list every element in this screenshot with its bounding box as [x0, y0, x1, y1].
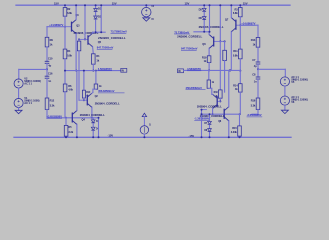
svg-text:4.5849355V: 4.5849355V	[187, 67, 201, 71]
junction	[201, 109, 203, 111]
junction	[65, 136, 67, 138]
svg-text:1n: 1n	[254, 80, 257, 84]
svg-text:AC 1 1: AC 1 1	[24, 101, 32, 105]
svg-text:R14: R14	[233, 83, 238, 87]
svg-text:6.8k: 6.8k	[233, 11, 238, 15]
wire Q2 base stub	[84, 99, 87, 101]
wire rail to Q6 base node	[219, 5, 221, 41]
junction	[209, 113, 211, 115]
resistor R16	[256, 98, 260, 109]
wire D6 to Q6 collector node	[203, 20, 205, 31]
node input right	[257, 68, 259, 70]
wire to R8	[78, 39, 80, 41]
junction	[203, 31, 205, 33]
svg-text:R15: R15	[232, 126, 237, 130]
resistor R20	[207, 80, 211, 88]
junction	[228, 136, 230, 138]
wire rail to Q6 collector node (cascode)	[209, 5, 211, 32]
wire	[16, 4, 290, 6]
wire	[95, 12, 97, 16]
junction	[78, 38, 80, 40]
junction	[98, 117, 100, 119]
voltage source V1	[14, 98, 23, 107]
svg-text:847.75565mV: 847.75565mV	[181, 47, 198, 51]
wire emitter bus right	[186, 69, 240, 71]
svg-text:15V: 15V	[54, 2, 59, 6]
node input left	[46, 68, 48, 70]
svg-text:2N3906_CORDELL: 2N3906_CORDELL	[98, 36, 126, 40]
current source I1	[142, 113, 146, 116]
svg-text:2N3906_CORDELL: 2N3906_CORDELL	[177, 34, 202, 38]
wire	[209, 114, 211, 121]
wire D4 to rail	[92, 131, 94, 137]
voltage source V5	[280, 77, 289, 86]
node Q3 base	[64, 26, 66, 28]
svg-text:R12: R12	[50, 98, 55, 102]
junction	[230, 4, 232, 6]
svg-text:15V: 15V	[185, 2, 190, 6]
wire	[143, 134, 145, 137]
svg-text:0.8k: 0.8k	[233, 54, 238, 58]
wire Q4 collector to Q3 emitter node	[76, 71, 78, 111]
wire rail to R2	[64, 5, 66, 7]
svg-text:R11: R11	[233, 49, 238, 53]
svg-text:456.83582mV: 456.83582mV	[186, 86, 203, 90]
svg-text:15V: 15V	[112, 2, 117, 6]
ground below V7	[143, 18, 150, 21]
transistor Q4 2N3904_CORNELL	[71, 113, 73, 123]
junction	[209, 31, 211, 33]
svg-text:73.73891mV: 73.73891mV	[174, 30, 189, 34]
junction	[92, 136, 94, 138]
svg-text:73.738915mV: 73.738915mV	[111, 30, 128, 34]
transistor Q9 2N3904_CORNELL	[216, 96, 218, 106]
svg-text:15V: 15V	[243, 2, 248, 6]
wire Q7 emitter down to bus	[230, 32, 232, 71]
wire Q6 base node down to R18	[219, 41, 221, 90]
wire Q9 collector riser	[211, 88, 213, 94]
wire R2 to node	[64, 16, 66, 27]
junction	[229, 69, 231, 71]
wire Q5 emitter to R1	[92, 47, 95, 54]
wire to V5	[284, 69, 286, 77]
voltage source V2	[14, 79, 23, 88]
svg-text:C10: C10	[48, 56, 53, 60]
junction	[75, 4, 77, 6]
transistor Q8 2N3904_CORNELL	[223, 109, 225, 119]
junction	[84, 38, 86, 40]
wire mid bus to R14	[239, 71, 241, 84]
resistor R7	[94, 84, 98, 89]
junction	[75, 70, 77, 72]
svg-text:-3.6503936V: -3.6503936V	[247, 113, 262, 117]
wire R12 down	[46, 109, 48, 117]
resistor R13	[256, 38, 260, 48]
wire R13 to C7	[257, 47, 259, 62]
wire R14 to lower node	[239, 92, 241, 114]
svg-text:6.8k: 6.8k	[67, 11, 72, 15]
resistor R15	[238, 126, 242, 136]
wire R18 to Q9 base node	[219, 98, 221, 101]
resistor R18	[219, 90, 223, 98]
wire	[92, 91, 93, 94]
wire R11 to mid bus	[239, 59, 241, 71]
wire rail to R3	[239, 5, 241, 7]
wire	[92, 118, 94, 120]
junction	[209, 136, 211, 138]
wire down to R9	[46, 27, 48, 38]
junction	[219, 40, 221, 42]
wire rail to Q5 collector node (cascode)	[100, 5, 102, 32]
svg-text:3.3k: 3.3k	[68, 130, 73, 134]
svg-text:R13: R13	[251, 38, 256, 42]
wire Q3 emitter down to bus	[75, 34, 77, 71]
wire Q5 collector riser	[92, 32, 94, 33]
wire R20 to Q9 collector	[209, 87, 212, 89]
wire	[239, 114, 241, 126]
junction	[95, 31, 97, 33]
resistor R12	[45, 98, 49, 109]
wire V2 to V1	[18, 88, 20, 98]
wire Q6 collector node	[194, 31, 210, 33]
svg-text:3.33k: 3.33k	[231, 130, 238, 134]
wire R17 down	[224, 61, 226, 93]
junction	[143, 136, 145, 138]
wire R3 to node	[239, 17, 241, 25]
wire rail to Q5 base node	[84, 5, 86, 39]
junction	[203, 4, 205, 6]
wire mid bus to R10	[83, 71, 85, 91]
junction	[201, 113, 203, 115]
junction	[76, 136, 78, 138]
resistor R6	[63, 84, 67, 92]
wire down to R13	[257, 25, 259, 37]
junction	[95, 70, 97, 72]
wire to R17	[224, 41, 226, 50]
resistor R17	[223, 50, 227, 60]
wire C10 to input node	[46, 63, 48, 69]
wire lower jog right	[252, 113, 258, 115]
wire R8 down to Q2 base node	[78, 51, 80, 100]
junction	[145, 4, 147, 6]
wire emitter bus left	[65, 70, 121, 72]
resistor R2	[63, 8, 67, 17]
wire	[209, 125, 211, 129]
junction	[219, 4, 221, 6]
wire C8 down	[257, 79, 259, 98]
wire R15 to rail	[239, 136, 241, 137]
wire Q3 collector to rail	[75, 5, 77, 19]
wire R4 to R6	[64, 59, 66, 84]
transistor Q2 2N3904_CORNELL	[86, 95, 88, 105]
resistor R8	[77, 41, 80, 51]
svg-text:AC 1 1: AC 1 1	[24, 82, 32, 86]
wire V1 to ground	[18, 108, 20, 111]
wire lower node to rail (right leg)	[98, 118, 100, 138]
junction	[83, 70, 85, 72]
svg-text:3.3k: 3.3k	[50, 103, 55, 107]
wire R1 to mid wire	[92, 64, 94, 70]
wire Q6 collector riser	[208, 32, 210, 35]
wire V6 to ground	[284, 105, 286, 110]
wire Q8 collector up to bus	[228, 70, 230, 106]
port flag IN2	[178, 69, 184, 73]
resistor R19	[207, 56, 211, 63]
wire	[95, 5, 97, 8]
junction	[239, 70, 241, 72]
junction	[100, 31, 102, 33]
junction	[201, 113, 203, 115]
wire to V2	[18, 69, 20, 79]
wire node to col258	[240, 24, 258, 26]
junction	[100, 4, 102, 6]
wire Q5 base stub	[79, 38, 88, 40]
node Q7 base	[239, 24, 241, 26]
svg-text:4.5849355V: 4.5849355V	[98, 67, 112, 71]
wire	[236, 24, 240, 26]
wire lower node stub up	[201, 110, 203, 115]
wire R19 to mid bus	[208, 63, 210, 71]
wire	[46, 69, 48, 76]
voltage source V6	[280, 96, 289, 105]
svg-text:2N3904_CORDELL: 2N3904_CORDELL	[197, 104, 222, 108]
wire R10 to Q2 base node	[83, 98, 85, 100]
wire Q2 collector riser	[92, 89, 94, 92]
transistor Q6 2N3906_CORNELL	[213, 37, 215, 47]
svg-text:-15V: -15V	[108, 133, 114, 137]
wire C16 to R12	[46, 78, 48, 98]
junction	[92, 70, 94, 72]
wire Q4 emitter to rail	[76, 125, 78, 138]
wire	[14, 136, 291, 138]
wire mid bus to R20	[208, 70, 210, 80]
wire Q7 collector to rail	[230, 5, 232, 17]
junction	[98, 136, 100, 138]
resistor R1	[92, 54, 96, 64]
wire R9 to C10	[46, 47, 48, 61]
svg-text:+3.6503936V: +3.6503936V	[46, 115, 62, 119]
wire Q9 emitter down	[212, 109, 214, 115]
wire Q6 emitter to R12b	[208, 49, 210, 56]
svg-text:-15V: -15V	[189, 134, 195, 138]
junction	[64, 70, 66, 72]
resistor R14	[239, 84, 243, 92]
wire lower node left	[47, 117, 99, 119]
wire lower node right	[202, 113, 240, 115]
svg-text:4.6k: 4.6k	[68, 87, 73, 91]
wire	[203, 12, 205, 17]
resistor R9	[45, 37, 49, 47]
wire mid bus to R7	[95, 71, 97, 84]
wire R8 chain to Q2 base node	[79, 99, 84, 101]
wire	[143, 117, 145, 126]
junction	[212, 113, 214, 115]
svg-text:1n: 1n	[48, 79, 51, 83]
junction	[91, 117, 93, 119]
wire	[145, 5, 147, 7]
junction	[209, 4, 211, 6]
wire Q6 base stub	[214, 40, 225, 42]
junction	[219, 100, 221, 102]
svg-text:4p: 4p	[48, 63, 51, 67]
wire input net right	[258, 68, 285, 70]
svg-text:2N3904_CORDELL: 2N3904_CORDELL	[80, 113, 105, 117]
wire R5 to rail	[65, 136, 67, 137]
svg-text:847.75565mV: 847.75565mV	[97, 46, 114, 50]
svg-text:2N3904_CORDELL: 2N3904_CORDELL	[200, 114, 225, 118]
wire	[145, 17, 147, 18]
wire Q8 emitter to rail	[228, 121, 230, 138]
wire Q5 collector node	[93, 31, 106, 33]
wire R7 to Q2 collector	[93, 88, 96, 90]
transistor Q5 2N3906_CORNELL	[87, 35, 89, 45]
wire R6 to lower node	[64, 92, 66, 118]
svg-text:R19: R19	[202, 55, 207, 59]
svg-text:C16: C16	[48, 72, 53, 76]
port flag IN1	[121, 68, 127, 72]
wire	[202, 109, 207, 111]
wire R16 down to lower node	[257, 109, 259, 114]
junction	[65, 117, 67, 119]
wire node to R4	[64, 27, 66, 49]
junction	[239, 113, 241, 115]
wire D8 to rail	[209, 132, 211, 137]
resistor R11	[239, 49, 243, 59]
junction	[239, 136, 241, 138]
wire node to col47	[47, 26, 65, 28]
wire	[257, 64, 259, 69]
resistor R5	[64, 125, 68, 136]
junction	[208, 69, 210, 71]
junction	[83, 99, 85, 101]
resistor R4	[63, 49, 67, 59]
junction	[95, 4, 97, 6]
wire lower node to rail (left leg)	[201, 114, 203, 137]
svg-text:R16: R16	[251, 98, 256, 102]
svg-text:4p: 4p	[254, 64, 257, 68]
wire	[211, 93, 214, 95]
wire Q2 emitter down	[91, 107, 93, 117]
wire V5 to V6	[284, 86, 286, 96]
svg-text:3.3k: 3.3k	[251, 103, 256, 107]
junction	[64, 4, 66, 6]
resistor R10	[82, 90, 85, 98]
wire	[203, 5, 205, 8]
svg-text:456.83582mV: 456.83582mV	[98, 89, 115, 93]
resistor R3	[239, 8, 243, 17]
wire	[65, 26, 72, 28]
wire	[65, 118, 67, 126]
junction	[201, 136, 203, 138]
wire Q9 base stub	[217, 100, 220, 102]
ground below V1	[15, 110, 22, 113]
junction	[84, 4, 86, 6]
wire	[184, 69, 187, 71]
wire	[92, 124, 94, 128]
wire node to R11	[239, 25, 241, 49]
svg-text:2N3904_CORDELL: 2N3904_CORDELL	[95, 101, 120, 105]
wire D2 to Q5 collector node	[95, 20, 97, 32]
ground below V6	[281, 110, 288, 113]
junction	[224, 40, 226, 42]
svg-text:0.8k: 0.8k	[67, 54, 72, 58]
junction	[239, 4, 241, 6]
wire	[257, 69, 259, 77]
wire input net left	[19, 68, 47, 70]
